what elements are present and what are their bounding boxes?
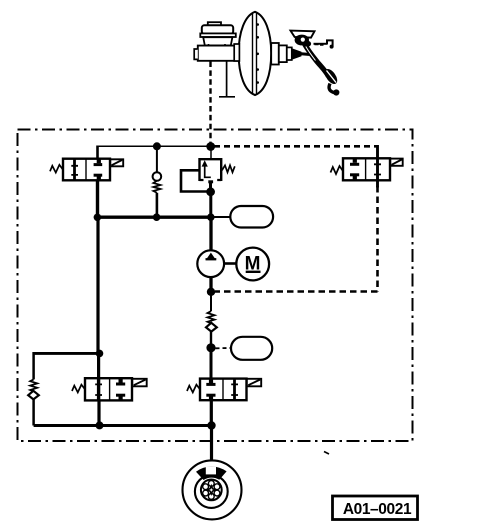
wire: top manifold line [98, 145, 211, 147]
supply line from master cylinder (dashed) [209, 62, 211, 146]
master cylinder left flange [194, 49, 198, 59]
brake fluid reservoir body [203, 37, 232, 45]
wire: below node to damper spring [210, 292, 212, 311]
electric motor M1 [236, 248, 269, 281]
pedal foot hook [329, 84, 334, 93]
valve V4 (outlet, right) body [187, 379, 261, 401]
junction node E (bus1 / check valve CV1) [153, 213, 161, 221]
wire: relief valve riser [210, 146, 212, 159]
pedal mounting bracket [291, 31, 315, 38]
pump P1 [197, 250, 224, 277]
V4 solenoid [247, 379, 262, 387]
pressure relief valve PRV body [200, 159, 222, 181]
hydraulic unit boundary (dash-dot frame) [18, 130, 413, 442]
stray tick [324, 452, 329, 455]
wire: left column bus1 to loop node [96, 217, 99, 353]
hub centre [207, 486, 215, 494]
V3 through line (left cell, ports) [97, 379, 100, 400]
V1 blocked ports (right cell) [97, 159, 101, 163]
wire: V4 bottom to bus2 [210, 400, 213, 425]
wire: left bypass loop top [34, 352, 100, 355]
wire: node to valve V4 [210, 348, 213, 380]
V2 open-path arrows (right cell) [374, 164, 381, 174]
junction node J (bus2 / valve V3) [96, 421, 104, 429]
wire: bus1 [97, 216, 210, 219]
pedal pivot boss [295, 35, 309, 46]
wire: pump outlet down [209, 277, 212, 292]
relief valve spring [222, 165, 235, 172]
V1 return spring [50, 165, 63, 173]
V3 blocked ports (right cell) [118, 379, 122, 383]
wire: bus1 to pump [209, 217, 212, 251]
V3 return spring [72, 385, 85, 393]
booster output step 2 [279, 45, 287, 62]
secondary circuit boundary (dashed box) top edge [214, 145, 378, 148]
wire: V2 top stub [376, 145, 379, 158]
V3 solenoid [132, 379, 147, 387]
relief valve pilot line [181, 170, 208, 191]
wire: diamond to node [210, 332, 212, 348]
junction node C (relief valve outlet / pilot) [206, 187, 215, 196]
wire: V3 bottom to bus2 [97, 400, 100, 425]
master cylinder body [198, 46, 239, 61]
relief valve bottom port [208, 180, 213, 183]
wire: loop node to valve V3 [97, 353, 100, 378]
booster output step 3 [287, 47, 292, 60]
wire: left bypass down [32, 352, 35, 379]
V1 open-path bars (left cell) [73, 160, 76, 180]
drawing number label box [333, 496, 418, 520]
wire: bypass to bus2 [32, 399, 35, 425]
pushrod clevis rod [314, 43, 328, 45]
wire: V2 bottom stub [376, 180, 379, 187]
V2 blocked ports (left cell) [353, 159, 357, 163]
V4 open-path arrows (right cell) [233, 379, 236, 399]
damper spring S1 [208, 311, 215, 323]
booster diaphragm seam lines [253, 13, 257, 94]
pump-motor shaft link [224, 262, 236, 265]
master cylinder bleed line [219, 62, 235, 97]
wire: check valve branch lower [156, 193, 159, 217]
V2 solenoid [390, 159, 403, 166]
V4 blocked ports (left cell) [209, 379, 213, 383]
secondary circuit boundary right edge (below valve, dashed) [376, 186, 379, 292]
clevis hook [327, 40, 333, 46]
V2 return spring [331, 166, 344, 174]
master cylinder reservoir cap knob [208, 22, 221, 26]
reservoir cap flange band [200, 33, 236, 37]
secondary circuit boundary bottom edge [215, 290, 378, 293]
vacuum booster shell [239, 12, 272, 95]
junction node F (bus1 / pump outlet) [207, 213, 215, 221]
reservoir outlet stub left [209, 44, 212, 49]
valve V3 (outlet, left) body [72, 378, 147, 400]
wire: bus1 to accumulator A1 [211, 216, 231, 218]
relief valve internal arrow [205, 164, 211, 178]
wheel tyre [183, 460, 242, 519]
junction node G (pump inlet / secondary circuit) [207, 288, 215, 296]
booster pushrod nose cone [292, 48, 302, 59]
accumulator A2 [231, 337, 272, 360]
wire: bus2 [100, 424, 212, 427]
wire: V2 through-line [376, 159, 379, 180]
svg-text:A01–0021: A01–0021 [343, 501, 412, 518]
valve V1 (inlet, left circuit) body [50, 159, 123, 181]
junction node D (bus1 left) [94, 214, 102, 222]
junction node B (supply entry) [206, 142, 215, 151]
clevis dashes [315, 44, 324, 46]
junction node H (accumulator A2 tap) [206, 343, 215, 352]
brake pedal lever [305, 44, 329, 77]
V4 return spring [187, 385, 200, 393]
wheel rim [195, 475, 228, 508]
wire: valve V1 to bus1 [96, 180, 99, 218]
wire: relief valve to bus1 [209, 192, 212, 217]
V1 solenoid [110, 159, 123, 166]
booster left mounting tab [234, 44, 239, 61]
pushrod to pedal link [301, 54, 313, 55]
check valve CV1 spring [153, 181, 160, 193]
booster output step 1 [271, 43, 279, 65]
master cylinder reservoir cap [202, 25, 233, 33]
check valve CV1 ball [153, 172, 162, 181]
junction node A (top manifold / check-valve branch) [153, 142, 161, 150]
wire: node to accumulator A2 (dashed) [216, 347, 231, 349]
wire: valve V1 riser [96, 146, 99, 160]
bypass spring S2 [30, 379, 37, 391]
reservoir outlet stub right [225, 44, 228, 49]
check valve CV2 (diamond) [206, 323, 217, 332]
brake caliper [196, 467, 227, 480]
accumulator A1 [230, 206, 273, 228]
bypass check valve CV3 (diamond) [28, 391, 39, 400]
wheel hub [201, 480, 222, 501]
pedal pad [322, 67, 339, 86]
wire: bus2 to wheel [210, 426, 213, 462]
junction node I (bypass loop top) [96, 350, 104, 358]
wire: check valve branch upper [156, 146, 158, 172]
valve V2 (inlet, right circuit) body [331, 158, 403, 180]
booster seam bolts [256, 23, 259, 84]
junction node K (bus2 / wheel line) [207, 421, 215, 429]
